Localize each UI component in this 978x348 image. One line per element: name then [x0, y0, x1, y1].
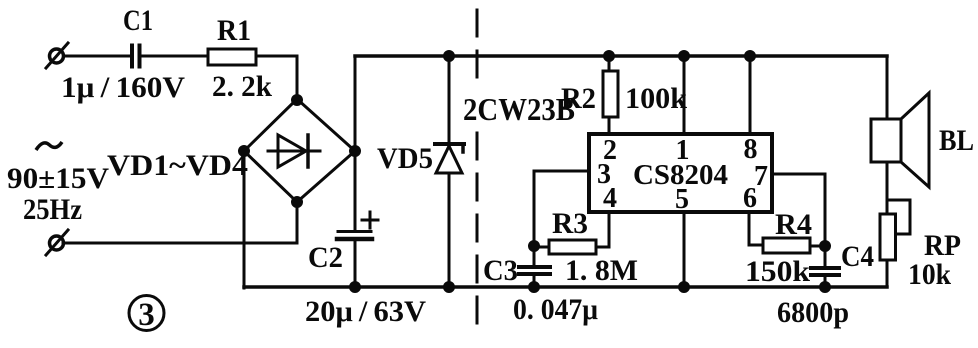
label circled 3	[129, 296, 164, 334]
terminal input bottom	[46, 230, 68, 255]
wire	[886, 162, 889, 214]
label 2CW23B	[463, 83, 575, 127]
capacitor C4	[811, 246, 839, 288]
wire	[243, 151, 246, 288]
node C4 ground	[821, 283, 830, 292]
node pin5 ground	[680, 283, 689, 292]
node pin8 top	[746, 52, 755, 61]
svg-text:BL: BL	[939, 124, 974, 157]
node R3 C3	[530, 242, 539, 251]
node pin1 top	[680, 52, 689, 61]
resistor R3	[534, 240, 609, 254]
resistor R2	[603, 56, 618, 134]
node C3 ground	[530, 283, 539, 292]
node R4 C4	[821, 242, 830, 251]
node R2 top	[605, 52, 614, 61]
wire	[256, 56, 297, 100]
speaker BL	[871, 93, 929, 187]
wire	[354, 56, 357, 231]
wire pin1	[683, 56, 686, 134]
svg-text:C3: C3	[483, 254, 518, 287]
svg-text:1μ / 160V: 1μ / 160V	[61, 71, 185, 104]
svg-text:6: 6	[743, 183, 757, 214]
op-amp U1 CS8204	[589, 134, 772, 212]
svg-text:3: 3	[138, 297, 155, 333]
svg-text:C2: C2	[308, 241, 343, 274]
svg-text:2CW23B: 2CW23B	[463, 91, 575, 127]
svg-text:25Hz: 25Hz	[23, 193, 82, 226]
wire pin5	[683, 212, 686, 287]
wire	[64, 55, 130, 58]
label AC tilde	[36, 142, 62, 150]
wire pin6	[749, 212, 763, 245]
bridge rectifier VD1~VD4	[244, 99, 355, 202]
node bridge top	[293, 96, 302, 105]
wire pin3	[534, 171, 589, 246]
wire bottom rail	[244, 285, 887, 289]
node bridge right	[351, 147, 360, 156]
wire pin4	[608, 212, 611, 247]
svg-text:R1: R1	[217, 14, 251, 47]
svg-text:0. 047μ: 0. 047μ	[513, 293, 598, 326]
capacitor C3	[519, 246, 550, 288]
svg-text:R3: R3	[552, 207, 588, 240]
svg-text:100k: 100k	[625, 82, 687, 115]
wire	[886, 260, 889, 287]
node VD5 bottom	[445, 283, 454, 292]
capacitor C1	[132, 46, 140, 67]
svg-text:90±15V: 90±15V	[7, 162, 109, 195]
wire top rail	[355, 54, 887, 58]
svg-text:2. 2k: 2. 2k	[212, 70, 272, 103]
svg-text:6800p: 6800p	[777, 296, 849, 329]
resistor R4	[763, 238, 825, 253]
svg-text:C1: C1	[123, 4, 153, 37]
wire right	[886, 56, 889, 119]
node VD5 top	[445, 52, 454, 61]
wire pin7	[772, 174, 825, 246]
wire	[63, 202, 297, 243]
node C2 ground	[351, 283, 360, 292]
zener diode VD5	[435, 56, 464, 287]
node bridge bottom	[293, 198, 302, 207]
svg-text:VD1~VD4: VD1~VD4	[107, 149, 248, 182]
dashed separator line	[476, 10, 479, 323]
svg-text:150k: 150k	[745, 255, 810, 288]
svg-text:4: 4	[603, 183, 617, 214]
svg-text:C4: C4	[841, 240, 874, 273]
svg-text:R2: R2	[561, 82, 596, 115]
capacitor C2	[337, 212, 378, 287]
potentiometer RP wiper	[888, 200, 910, 234]
svg-text:10k: 10k	[908, 258, 951, 291]
resistor R1	[208, 49, 256, 65]
svg-text:20μ / 63V: 20μ / 63V	[305, 295, 426, 328]
potentiometer RP	[880, 214, 896, 260]
svg-text:R4: R4	[775, 208, 812, 241]
svg-text:1. 8M: 1. 8M	[565, 254, 638, 287]
svg-text:5: 5	[675, 184, 689, 215]
terminal input top	[46, 43, 68, 68]
node bridge left	[240, 147, 249, 156]
wire	[142, 55, 208, 58]
svg-text:VD5: VD5	[377, 142, 433, 175]
wire pin8	[749, 56, 752, 134]
